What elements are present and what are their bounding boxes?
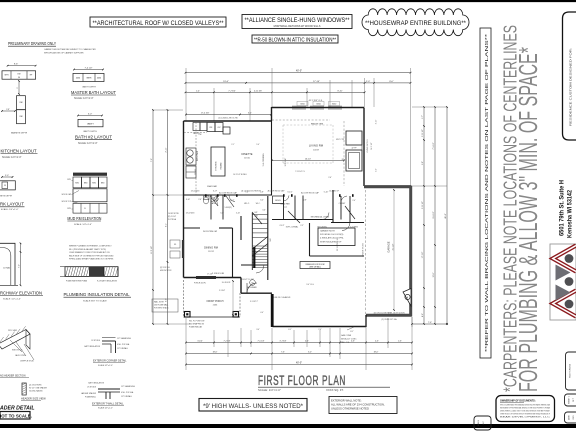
svg-text:HDR W/ SPCR: HDR W/ SPCR: [160, 270, 172, 272]
svg-text:14'-1 1/2": 14'-1 1/2": [371, 142, 373, 150]
svg-text:1'-4": 1'-4": [196, 90, 200, 92]
svg-text:KITCHEN: KITCHEN: [196, 150, 199, 161]
svg-text:7'-11 1/4" CL: 7'-11 1/4" CL: [295, 171, 305, 173]
svg-text:FOR PLUMBING & ALLOW 3" MIN. O: FOR PLUMBING & ALLOW 3" MIN. OF SPACE*: [513, 47, 543, 392]
svg-text:3'-0": 3'-0": [308, 352, 312, 354]
svg-text:P. FOB B 57 AN: P. FOB B 57 AN: [212, 272, 225, 275]
svg-text:17'-1/2": 17'-1/2": [422, 251, 424, 258]
svg-text:XXXX SQ. FT.: XXXX SQ. FT.: [326, 388, 344, 392]
svg-text:SCALE: 1/4"=1'-0": SCALE: 1/4"=1'-0": [78, 142, 98, 145]
svg-text:SCALE: 1/2"=1'-0": SCALE: 1/2"=1'-0": [3, 298, 21, 301]
svg-text:2'-8": 2'-8": [303, 200, 307, 202]
svg-text:LARGER SPACER: LARGER SPACER: [81, 392, 97, 395]
svg-text:*9' HIGH WALLS- UNLESS NOTED*: *9' HIGH WALLS- UNLESS NOTED*: [203, 403, 303, 410]
svg-text:BENCH: BENCH: [275, 200, 281, 202]
svg-text:**ARCHITECTURAL ROOF W/ CLOSED: **ARCHITECTURAL ROOF W/ CLOSED VALLEYS**: [93, 20, 225, 27]
svg-text:1/2" SHEATHING: 1/2" SHEATHING: [117, 337, 132, 340]
svg-text:SCALE 1/2"=1'-0": SCALE 1/2"=1'-0": [98, 407, 113, 410]
svg-text:KING STUD: KING STUD: [12, 350, 23, 352]
svg-text:11X10: 11X10: [244, 158, 251, 160]
svg-text:(2) 2X4'S 1/2" GA: (2) 2X4'S 1/2" GA: [382, 318, 398, 321]
svg-text:Kenosha WI 53142: Kenosha WI 53142: [567, 190, 574, 238]
svg-text:4'-11 3/4": 4'-11 3/4": [254, 90, 263, 92]
svg-text:VANITY: VANITY: [87, 122, 94, 125]
svg-text:12'-6": 12'-6": [433, 272, 435, 277]
svg-text:ALCOVE WOOD CAP: ALCOVE WOOD CAP: [268, 190, 286, 193]
svg-text:SOFT-1 DRWAL: SOFT-1 DRWAL: [286, 226, 298, 229]
svg-text:KITCHEN: KITCHEN: [216, 161, 218, 170]
svg-text:5'-10": 5'-10": [324, 192, 329, 194]
svg-text:FIRST FLOOR PLAN: FIRST FLOOR PLAN: [258, 373, 346, 388]
svg-text:16' OH. DOOR PANEL 16'X7' DOOR: 16' OH. DOOR PANEL 16'X7' DOOR: [374, 312, 406, 315]
svg-text:WTR: WTR: [4, 75, 9, 77]
svg-text:6'-0": 6'-0": [260, 200, 264, 202]
svg-text:4 ML. POLYGA: 4 ML. POLYGA: [121, 391, 134, 394]
svg-text:EACH SIDE OF OUTERMOST PIPE (N: EACH SIDE OF OUTERMOST PIPE (NOT AROUND: [69, 254, 114, 257]
svg-text:5'-6": 5'-6": [256, 144, 260, 146]
svg-text:EXTERIOR WALL NOTE:: EXTERIOR WALL NOTE:: [331, 399, 362, 403]
svg-text:17'-10": 17'-10": [313, 81, 320, 83]
svg-text:3'-11": 3'-11": [376, 119, 378, 124]
svg-text:RM: RM: [20, 102, 23, 104]
svg-text:VANITY DEPTH: VANITY DEPTH: [82, 86, 96, 89]
svg-text:VANITY DEPTH: VANITY DEPTH: [83, 130, 97, 133]
svg-text:3'-0": 3'-0": [88, 114, 93, 116]
svg-text:MILLS: MILLS: [478, 419, 480, 425]
svg-text:(2) 2X12 HDRS: (2) 2X12 HDRS: [29, 385, 42, 387]
svg-text:OVER FRAMES TO RIM STYROFOAM B: OVER FRAMES TO RIM STYROFOAM BLT ON: [69, 251, 110, 254]
svg-text:4'-6": 4'-6": [422, 313, 424, 317]
svg-text:14'-1 WD OP: 14'-1 WD OP: [329, 191, 340, 193]
svg-text:4 ML. POLYGA: 4 ML. POLYGA: [117, 343, 130, 346]
svg-text:1/2" DRWALL: 1/2" DRWALL: [117, 347, 128, 350]
svg-text:7'-6": 7'-6": [281, 352, 285, 354]
svg-text:17'-1/2": 17'-1/2": [207, 274, 213, 276]
svg-text:6'-1/2": 6'-1/2": [287, 192, 292, 194]
svg-text:GRT LINTEL: GRT LINTEL: [317, 227, 327, 229]
svg-text:16'-10": 16'-10": [305, 159, 311, 161]
svg-text:(3) 1-3/4X14 LVL HDR DN: (3) 1-3/4X14 LVL HDR DN: [241, 191, 261, 193]
svg-text:6501 79th St. Suite H: 6501 79th St. Suite H: [559, 180, 566, 236]
svg-text:8'-0": 8'-0": [389, 81, 394, 83]
svg-text:W.I.C.: W.I.C.: [244, 203, 250, 205]
svg-text:19'-6": 19'-6": [223, 81, 229, 83]
svg-text:LIVING RM CLG: LIVING RM CLG: [367, 139, 369, 153]
svg-text:40'-0": 40'-0": [296, 362, 302, 365]
svg-text:18'-0": 18'-0": [374, 352, 379, 354]
svg-text:14X19: 14X19: [313, 149, 320, 151]
svg-text:41'-6": 41'-6": [445, 213, 447, 219]
svg-text:9'-1": 9'-1": [166, 223, 168, 227]
svg-text:13'-10 W20: 13'-10 W20: [186, 213, 195, 215]
svg-text:LLC: LLC: [483, 421, 485, 425]
svg-text:7'-4 1/2": 7'-4 1/2": [84, 68, 92, 70]
svg-text:7'-6": 7'-6": [428, 322, 432, 324]
svg-text:4'-6": 4'-6": [375, 341, 379, 343]
svg-text:CLOSET: CLOSET: [339, 203, 346, 205]
svg-text:8'-10": 8'-10": [337, 90, 342, 92]
svg-text:WOOD TOP: WOOD TOP: [62, 201, 72, 203]
svg-text:6'-17": 6'-17": [213, 191, 218, 193]
svg-text:2X STUDS: 2X STUDS: [87, 387, 97, 389]
svg-text:5'-2": 5'-2": [376, 168, 378, 172]
svg-text:(2) 1-3/4X11-7/8 LVL HD: (2) 1-3/4X11-7/8 LVL HD: [218, 118, 238, 120]
svg-text:UNLESS OTHERWISE NOTED: UNLESS OTHERWISE NOTED: [331, 407, 369, 411]
svg-text:FILL (PROVIDED A VACANT CAVITY: FILL (PROVIDED A VACANT CAVITY SITS): [69, 248, 106, 251]
svg-text:BATT INSULATION: BATT INSULATION: [84, 345, 100, 348]
svg-text:KNEELER FOR ROOM: KNEELER FOR ROOM: [306, 264, 325, 266]
svg-text:GLUED+NAILED: GLUED+NAILED: [29, 390, 43, 393]
svg-text:RCHWAY ELEVATION: RCHWAY ELEVATION: [0, 290, 42, 295]
svg-text:HEADER SIZE VIEW: HEADER SIZE VIEW: [21, 397, 46, 401]
svg-text:EXTERIOR CORNER DETAIL: EXTERIOR CORNER DETAIL: [93, 360, 127, 363]
svg-text:8'-1": 8'-1": [350, 331, 354, 333]
svg-text:9'-0" CLG: 9'-0" CLG: [306, 284, 314, 286]
svg-text:2X12 HDR: 2X12 HDR: [8, 330, 18, 332]
svg-text:**REFER TO WALL BRACING LOCATI: **REFER TO WALL BRACING LOCATIONS AND NO…: [484, 34, 490, 352]
svg-text:PIPES) & AND SPRAY FOAM DIRECT: PIPES) & AND SPRAY FOAM DIRECTLY ON PIPE…: [69, 258, 114, 261]
svg-text:2021: 2021: [573, 415, 575, 419]
svg-text:**ALLIANCE SINGLE-HUNG WINDOWS: **ALLIANCE SINGLE-HUNG WINDOWS**: [245, 18, 351, 24]
svg-text:3'-1/4": 3'-1/4": [197, 341, 203, 343]
svg-text:24X6: 24X6: [213, 305, 217, 307]
svg-text:FOAM INSULAT: FOAM INSULAT: [189, 326, 203, 329]
svg-text:2X6 PLUMB WALL: 2X6 PLUMB WALL: [154, 304, 168, 307]
svg-text:1/2 RAD: 1/2 RAD: [3, 267, 11, 270]
svg-text:GAS CONN: GAS CONN: [341, 334, 352, 337]
svg-text:2'-1": 2'-1": [231, 144, 235, 146]
svg-text:GARAGE NOTE:: GARAGE NOTE:: [320, 230, 336, 233]
svg-text:(SEE DETAIL): (SEE DETAIL): [309, 266, 321, 269]
svg-text:17'-4 3/4": 17'-4 3/4": [201, 113, 210, 115]
svg-text:W 17R EA: W 17R EA: [168, 218, 177, 221]
svg-text:3-0 DOOR: 3-0 DOOR: [222, 282, 231, 284]
svg-text:2'-8": 2'-8": [6, 109, 10, 111]
svg-text:SHEET 1: SHEET 1: [569, 396, 571, 404]
svg-text:SCALE 1/2"=1'-0": SCALE 1/2"=1'-0": [98, 364, 113, 367]
svg-text:NOT TO SCALE.: NOT TO SCALE.: [0, 413, 32, 418]
svg-text:6'-5": 6'-5": [166, 298, 168, 302]
svg-text:SCALE: 1/4"=1'-0": SCALE: 1/4"=1'-0": [74, 97, 94, 100]
svg-text:1/2" SHEATHING: 1/2" SHEATHING: [121, 385, 136, 388]
svg-text:6'-1/2": 6'-1/2": [280, 225, 285, 227]
svg-text:6'-1": 6'-1": [288, 329, 292, 331]
svg-text:40'-0": 40'-0": [296, 70, 302, 73]
svg-text:LIVING RM: LIVING RM: [309, 144, 324, 148]
svg-text:WHERE PLUMBING IS PRESENT, COM: WHERE PLUMBING IS PRESENT, COMPLETELY: [69, 246, 112, 248]
svg-text:WOOD/TRIM CAP: WOOD/TRIM CAP: [203, 230, 218, 233]
svg-text:RM: RM: [20, 116, 23, 118]
svg-text:MORTWALL RETURNS W/ WOOD SILLS: MORTWALL RETURNS W/ WOOD SILLS: [274, 25, 321, 28]
svg-text:SNACK BAR: SNACK BAR: [207, 185, 218, 188]
svg-text:10'-2 1/4" 36 WLD: 10'-2 1/4" 36 WLD: [233, 174, 247, 176]
svg-text:7'-2 3/4": 7'-2 3/4": [224, 341, 231, 343]
svg-text:RESIDENCE CUSTOM DESIGNED FOR:: RESIDENCE CUSTOM DESIGNED FOR:: [569, 48, 573, 126]
svg-text:4'-0": 4'-0": [260, 312, 264, 314]
svg-text:OF 7: OF 7: [573, 398, 575, 402]
svg-text:11-6 OPENING: 11-6 OPENING: [263, 153, 265, 166]
svg-text:& INSULATE. ALL 2 OPNL: & INSULATE. ALL 2 OPNL: [320, 237, 345, 240]
svg-text:CRIPPLE STUD: CRIPPLE STUD: [20, 361, 34, 363]
svg-text:PRELIMINARY DRAWING ONLY: PRELIMINARY DRAWING ONLY: [8, 41, 56, 46]
svg-text:3'-7 3/4": 3'-7 3/4": [280, 341, 287, 343]
svg-text:WOOD CAP: WOOD CAP: [62, 193, 72, 196]
svg-text:(2) 1X12 LVL: (2) 1X12 LVL: [160, 267, 170, 269]
svg-text:9'-6 1/2": 9'-6 1/2": [433, 211, 435, 218]
svg-text:GIRDER TRUSS: GIRDER TRUSS: [363, 242, 365, 256]
svg-text:5'-0": 5'-0": [220, 213, 224, 215]
svg-text:9'-6": 9'-6": [14, 64, 19, 66]
svg-text:W: W: [4, 185, 6, 187]
svg-text:FOR VENT STACK: FOR VENT STACK: [154, 307, 169, 310]
svg-text:1'-7": 1'-7": [422, 115, 424, 119]
svg-text:4030: 4030: [97, 77, 101, 79]
svg-text:FOAM INSITE/RIM FOAM: FOAM INSITE/RIM FOAM: [66, 280, 87, 283]
svg-text:NG HEADER SECTION: NG HEADER SECTION: [0, 375, 26, 378]
svg-text:4030: 4030: [76, 77, 80, 79]
svg-text:SPECIFICATIONS OF CABINET SUPP: SPECIFICATIONS OF CABINET SUPPLIER: [44, 52, 84, 55]
svg-text:36" REF: 36" REF: [195, 169, 197, 175]
svg-text:3'-0": 3'-0": [256, 329, 260, 331]
svg-text:7'-2": 7'-2": [151, 158, 153, 162]
svg-text:9'X7': 9'X7': [283, 207, 288, 209]
svg-text:OWNERSHIP OF DOCUMENTS:: OWNERSHIP OF DOCUMENTS:: [500, 400, 536, 403]
svg-text:ALCOVE WOOD CAP: ALCOVE WOOD CAP: [301, 192, 320, 195]
svg-text:9 CLG HT: 9 CLG HT: [285, 157, 287, 166]
svg-text:DINING RM: DINING RM: [204, 246, 218, 250]
svg-text:MECHANICAL CHASE: MECHANICAL CHASE: [311, 216, 330, 219]
svg-text:2'-6": 2'-6": [198, 199, 202, 201]
svg-text:R-19 BATT INSULATION: R-19 BATT INSULATION: [97, 280, 118, 283]
svg-text:FOAM/INSUL: FOAM/INSUL: [85, 396, 96, 399]
svg-text:WD WRAPPED IN: WD WRAPPED IN: [189, 323, 205, 326]
svg-text:2'-4": 2'-4": [352, 200, 356, 202]
svg-text:2'-11 1/2": 2'-11 1/2": [422, 201, 424, 209]
svg-text:2X STUDS: 2X STUDS: [91, 340, 101, 342]
svg-text:ENT CTR: ENT CTR: [336, 139, 344, 141]
svg-text:1-3/4X(2): 1-3/4X(2): [224, 207, 231, 209]
svg-text:36: 36: [18, 77, 20, 79]
svg-text:2'-6": 2'-6": [398, 341, 402, 343]
svg-text:DINETTE: DINETTE: [241, 152, 252, 156]
svg-text:HOLY CROSS: HOLY CROSS: [570, 363, 572, 378]
svg-text:KABINETS DEPTH: KABINETS DEPTH: [11, 132, 28, 135]
svg-text:SCALE: 1/4"=1'-0": SCALE: 1/4"=1'-0": [2, 156, 22, 159]
svg-text:CABINET LAYOUT MAY BE SUBJECT: CABINET LAYOUT MAY BE SUBJECT TO CHANGE …: [44, 48, 96, 51]
svg-text:2'-0": 2'-0": [366, 81, 371, 83]
svg-text:7'-5 1/2": 7'-5 1/2": [433, 142, 435, 149]
svg-text:WITH INSULATED TOP: WITH INSULATED TOP: [320, 240, 342, 243]
svg-text:SCALE: 1/4"=1'-0": SCALE: 1/4"=1'-0": [74, 223, 92, 226]
svg-text:ISLAND: ISLAND: [220, 162, 223, 169]
svg-text:2'-11 1/2": 2'-11 1/2": [422, 129, 424, 137]
svg-text:SCALE NOT TO SCALE: SCALE NOT TO SCALE: [83, 300, 107, 303]
svg-text:5'-3 OPNG: 5'-3 OPNG: [350, 227, 359, 229]
svg-text:4'-6": 4'-6": [351, 341, 355, 343]
svg-text:NETS DEPTH: NETS DEPTH: [0, 196, 13, 198]
svg-text:1/2" DRWALL: 1/2" DRWALL: [121, 395, 132, 398]
svg-text:5'-1 3/4": 5'-1 3/4": [219, 290, 226, 292]
svg-text:W.I.C.: W.I.C.: [256, 203, 261, 205]
svg-text:4'-10": 4'-10": [186, 199, 191, 201]
svg-text:FRONT PORCH: FRONT PORCH: [207, 301, 224, 303]
svg-text:BATT INSULATION: BATT INSULATION: [88, 382, 104, 385]
svg-text:5'-8": 5'-8": [422, 161, 424, 165]
svg-text:PORCH 4X4 PL: PORCH 4X4 PL: [194, 283, 206, 285]
svg-text:DW: DW: [18, 73, 21, 75]
svg-text:LINE OF CLG ABOVE: LINE OF CLG ABOVE: [274, 296, 292, 299]
svg-text:11'-5 1/2": 11'-5 1/2": [151, 246, 153, 255]
svg-text:7'-0": 7'-0": [19, 264, 21, 268]
svg-text:WD. PL POSTS W/: WD. PL POSTS W/: [189, 321, 205, 323]
svg-text:GARAGE: GARAGE: [387, 241, 391, 252]
svg-text:**R-50 BLOWN-IN ATTIC INSULATI: **R-50 BLOWN-IN ATTIC INSULATION**: [254, 37, 336, 43]
svg-text:SCALE: 1/4"=1'-0": SCALE: 1/4"=1'-0": [1, 208, 19, 211]
svg-text:7'-7 3/4": 7'-7 3/4": [228, 90, 236, 92]
svg-text:3'-1": 3'-1": [248, 113, 252, 115]
svg-text:7'-5 1/4": 7'-5 1/4": [258, 341, 265, 343]
svg-text:MIRR: MIRR: [87, 77, 92, 79]
svg-text:ARCHWAY: ARCHWAY: [247, 286, 257, 289]
svg-text:JACK STUD: JACK STUD: [15, 354, 26, 357]
svg-text:2'-10": 2'-10": [236, 213, 241, 215]
svg-text:5'-10 3/4" 5'-5 3/4": 5'-10 3/4" 5'-5 3/4": [240, 279, 254, 281]
svg-text:ALCOVE WOOD CAP: ALCOVE WOOD CAP: [219, 192, 238, 195]
svg-text:9X8 GRGE O.H DOOR(S): 9X8 GRGE O.H DOOR(S): [320, 234, 344, 236]
svg-text:3'-6": 3'-6": [262, 210, 266, 212]
svg-text:ALL WALLS ARE OF 2X4 CONSTRUCT: ALL WALLS ARE OF 2X4 CONSTRUCTION,: [331, 403, 385, 407]
svg-text:WALL NOTE:: WALL NOTE:: [154, 301, 165, 304]
svg-text:2'-2": 2'-2": [300, 225, 304, 227]
svg-text:**HOUSEWRAP ENTIRE BUILDING**: **HOUSEWRAP ENTIRE BUILDING**: [365, 21, 467, 27]
svg-text:42" FP: 42" FP: [351, 148, 357, 150]
svg-text:18'-6": 18'-6": [213, 352, 218, 354]
svg-text:DATE: DATE: [568, 414, 571, 420]
svg-text:5'-0": 5'-0": [5, 175, 9, 177]
svg-text:ADER DETAIL: ADER DETAIL: [0, 405, 35, 411]
svg-text:W/ 1/2" OSB SPACER: W/ 1/2" OSB SPACER: [29, 387, 48, 390]
svg-text:11X12: 11X12: [208, 251, 215, 253]
svg-text:3'-1 1/8" 2": 3'-1 1/8" 2": [250, 301, 259, 303]
svg-text:SCALE: 1/4"=1'-0": SCALE: 1/4"=1'-0": [258, 388, 281, 392]
svg-text:2'-11": 2'-11": [166, 147, 168, 152]
svg-text:MUD RM ELEVATION: MUD RM ELEVATION: [67, 216, 101, 221]
svg-text:EXTERIOR T-WALL DETAIL: EXTERIOR T-WALL DETAIL: [92, 402, 124, 405]
svg-text:10 SPCS TRD: 10 SPCS TRD: [168, 213, 180, 215]
svg-text:2'-6": 2'-6": [328, 177, 332, 179]
svg-text:13'-10 W20: 13'-10 W20: [191, 191, 200, 193]
svg-text:(R) 11 1/4": (R) 11 1/4": [168, 216, 176, 218]
svg-text:41'-2 3/4" O.F.: 41'-2 3/4" O.F.: [309, 100, 323, 102]
